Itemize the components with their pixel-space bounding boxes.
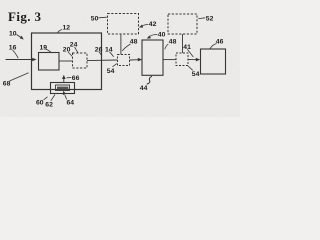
svg-text:60: 60 [36, 99, 44, 106]
node 64 leader arrow [65, 95, 67, 99]
node 42 leader arrow [142, 25, 148, 27]
wire from 44 to 54 right [163, 59, 176, 61]
wire 48 left vertical [120, 34, 122, 55]
wire 16 input [6, 59, 34, 61]
svg-text:24: 24 [70, 41, 78, 48]
svg-text:52: 52 [206, 15, 214, 22]
box 50 dashed [108, 14, 139, 35]
svg-text:44: 44 [140, 85, 148, 92]
svg-text:19: 19 [40, 45, 48, 52]
node 46 leader [210, 44, 217, 49]
wire 20 [59, 60, 73, 62]
svg-text:68: 68 [3, 80, 11, 87]
wire 66 arrow up [63, 78, 65, 83]
node 48 left leader [122, 44, 130, 51]
node 41 leader [187, 49, 193, 57]
node 40 leader arrow [150, 34, 157, 36]
node 26 leader [99, 52, 102, 56]
box 52 dashed [168, 14, 197, 34]
node 54 right leader [188, 66, 193, 70]
node 10 leader arrow [17, 35, 22, 38]
svg-text:48: 48 [169, 38, 177, 45]
node 20 leader [68, 52, 72, 56]
svg-text:62: 62 [45, 101, 53, 108]
node 68 leader [10, 73, 29, 81]
node 54 left leader [113, 64, 117, 67]
node 16 leader [13, 50, 19, 58]
svg-text:12: 12 [63, 25, 71, 32]
svg-text:26: 26 [95, 46, 103, 53]
svg-text:14: 14 [105, 46, 113, 53]
node 14 leader [110, 52, 114, 57]
svg-text:40: 40 [158, 31, 166, 38]
box 12 outer enclosure [32, 33, 102, 90]
svg-text:64: 64 [67, 99, 75, 106]
box 24 dashed [73, 53, 88, 68]
wire 48 right vertical [182, 34, 184, 53]
box 40/44 tall [142, 40, 163, 75]
node 66 leader [67, 77, 72, 79]
svg-text:54: 54 [192, 71, 200, 78]
node 44 squiggle leader [147, 76, 152, 84]
svg-text:42: 42 [149, 21, 157, 28]
node 19 leader [46, 49, 52, 53]
svg-text:Fig. 3: Fig. 3 [8, 9, 42, 24]
box 60 [51, 83, 75, 94]
wire 26 [87, 59, 118, 62]
node 52 leader [198, 17, 205, 20]
element 62 fill bar [57, 87, 68, 90]
node 12 leader [58, 30, 63, 33]
node 62 leader [51, 95, 55, 101]
node 48 right leader [165, 44, 169, 49]
box 46 [201, 49, 226, 74]
svg-text:46: 46 [216, 38, 224, 45]
svg-text:50: 50 [91, 15, 99, 22]
wire to box 46 [188, 59, 196, 61]
box 62 inner [56, 85, 70, 91]
node 50 leader [99, 16, 107, 19]
svg-text:54: 54 [107, 68, 115, 75]
node 24 leader [75, 47, 78, 53]
wire to box 40 [130, 59, 139, 61]
node 60 leader [44, 97, 48, 100]
box 19 [39, 53, 60, 71]
box 54 left dashed [118, 55, 130, 66]
svg-text:66: 66 [72, 75, 80, 82]
box 54 right dashed [176, 53, 188, 66]
svg-text:10: 10 [9, 31, 17, 38]
svg-text:48: 48 [130, 38, 138, 45]
